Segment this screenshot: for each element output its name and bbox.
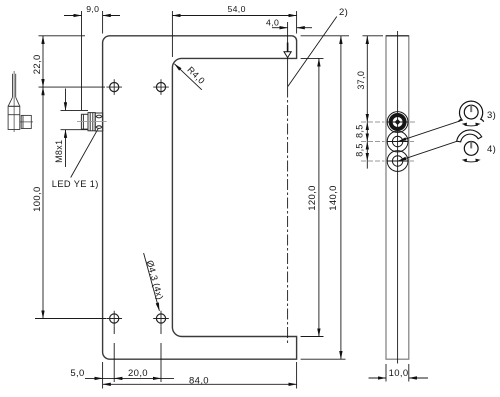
svg-text:LED YE 1): LED YE 1) [52,179,99,189]
svg-text:2): 2) [339,7,348,18]
svg-text:3): 3) [487,110,496,121]
svg-text:84,0: 84,0 [189,376,209,387]
svg-text:R4,0: R4,0 [185,65,207,87]
svg-text:8,5: 8,5 [354,143,364,157]
svg-text:54,0: 54,0 [227,4,245,14]
svg-text:M8x1: M8x1 [54,139,64,162]
svg-text:10,0: 10,0 [389,368,409,379]
svg-text:Ø4,3 (4x): Ø4,3 (4x) [145,259,166,301]
svg-text:37,0: 37,0 [356,71,366,90]
svg-text:8,5: 8,5 [354,124,364,138]
svg-text:140,0: 140,0 [328,185,339,211]
svg-text:4,0: 4,0 [266,18,279,28]
svg-text:9,0: 9,0 [86,4,99,14]
svg-text:20,0: 20,0 [128,368,148,379]
svg-text:100,0: 100,0 [32,186,43,212]
svg-text:5,0: 5,0 [70,368,84,379]
svg-text:22,0: 22,0 [32,54,43,74]
svg-text:4): 4) [487,144,496,155]
svg-text:120,0: 120,0 [307,185,318,211]
